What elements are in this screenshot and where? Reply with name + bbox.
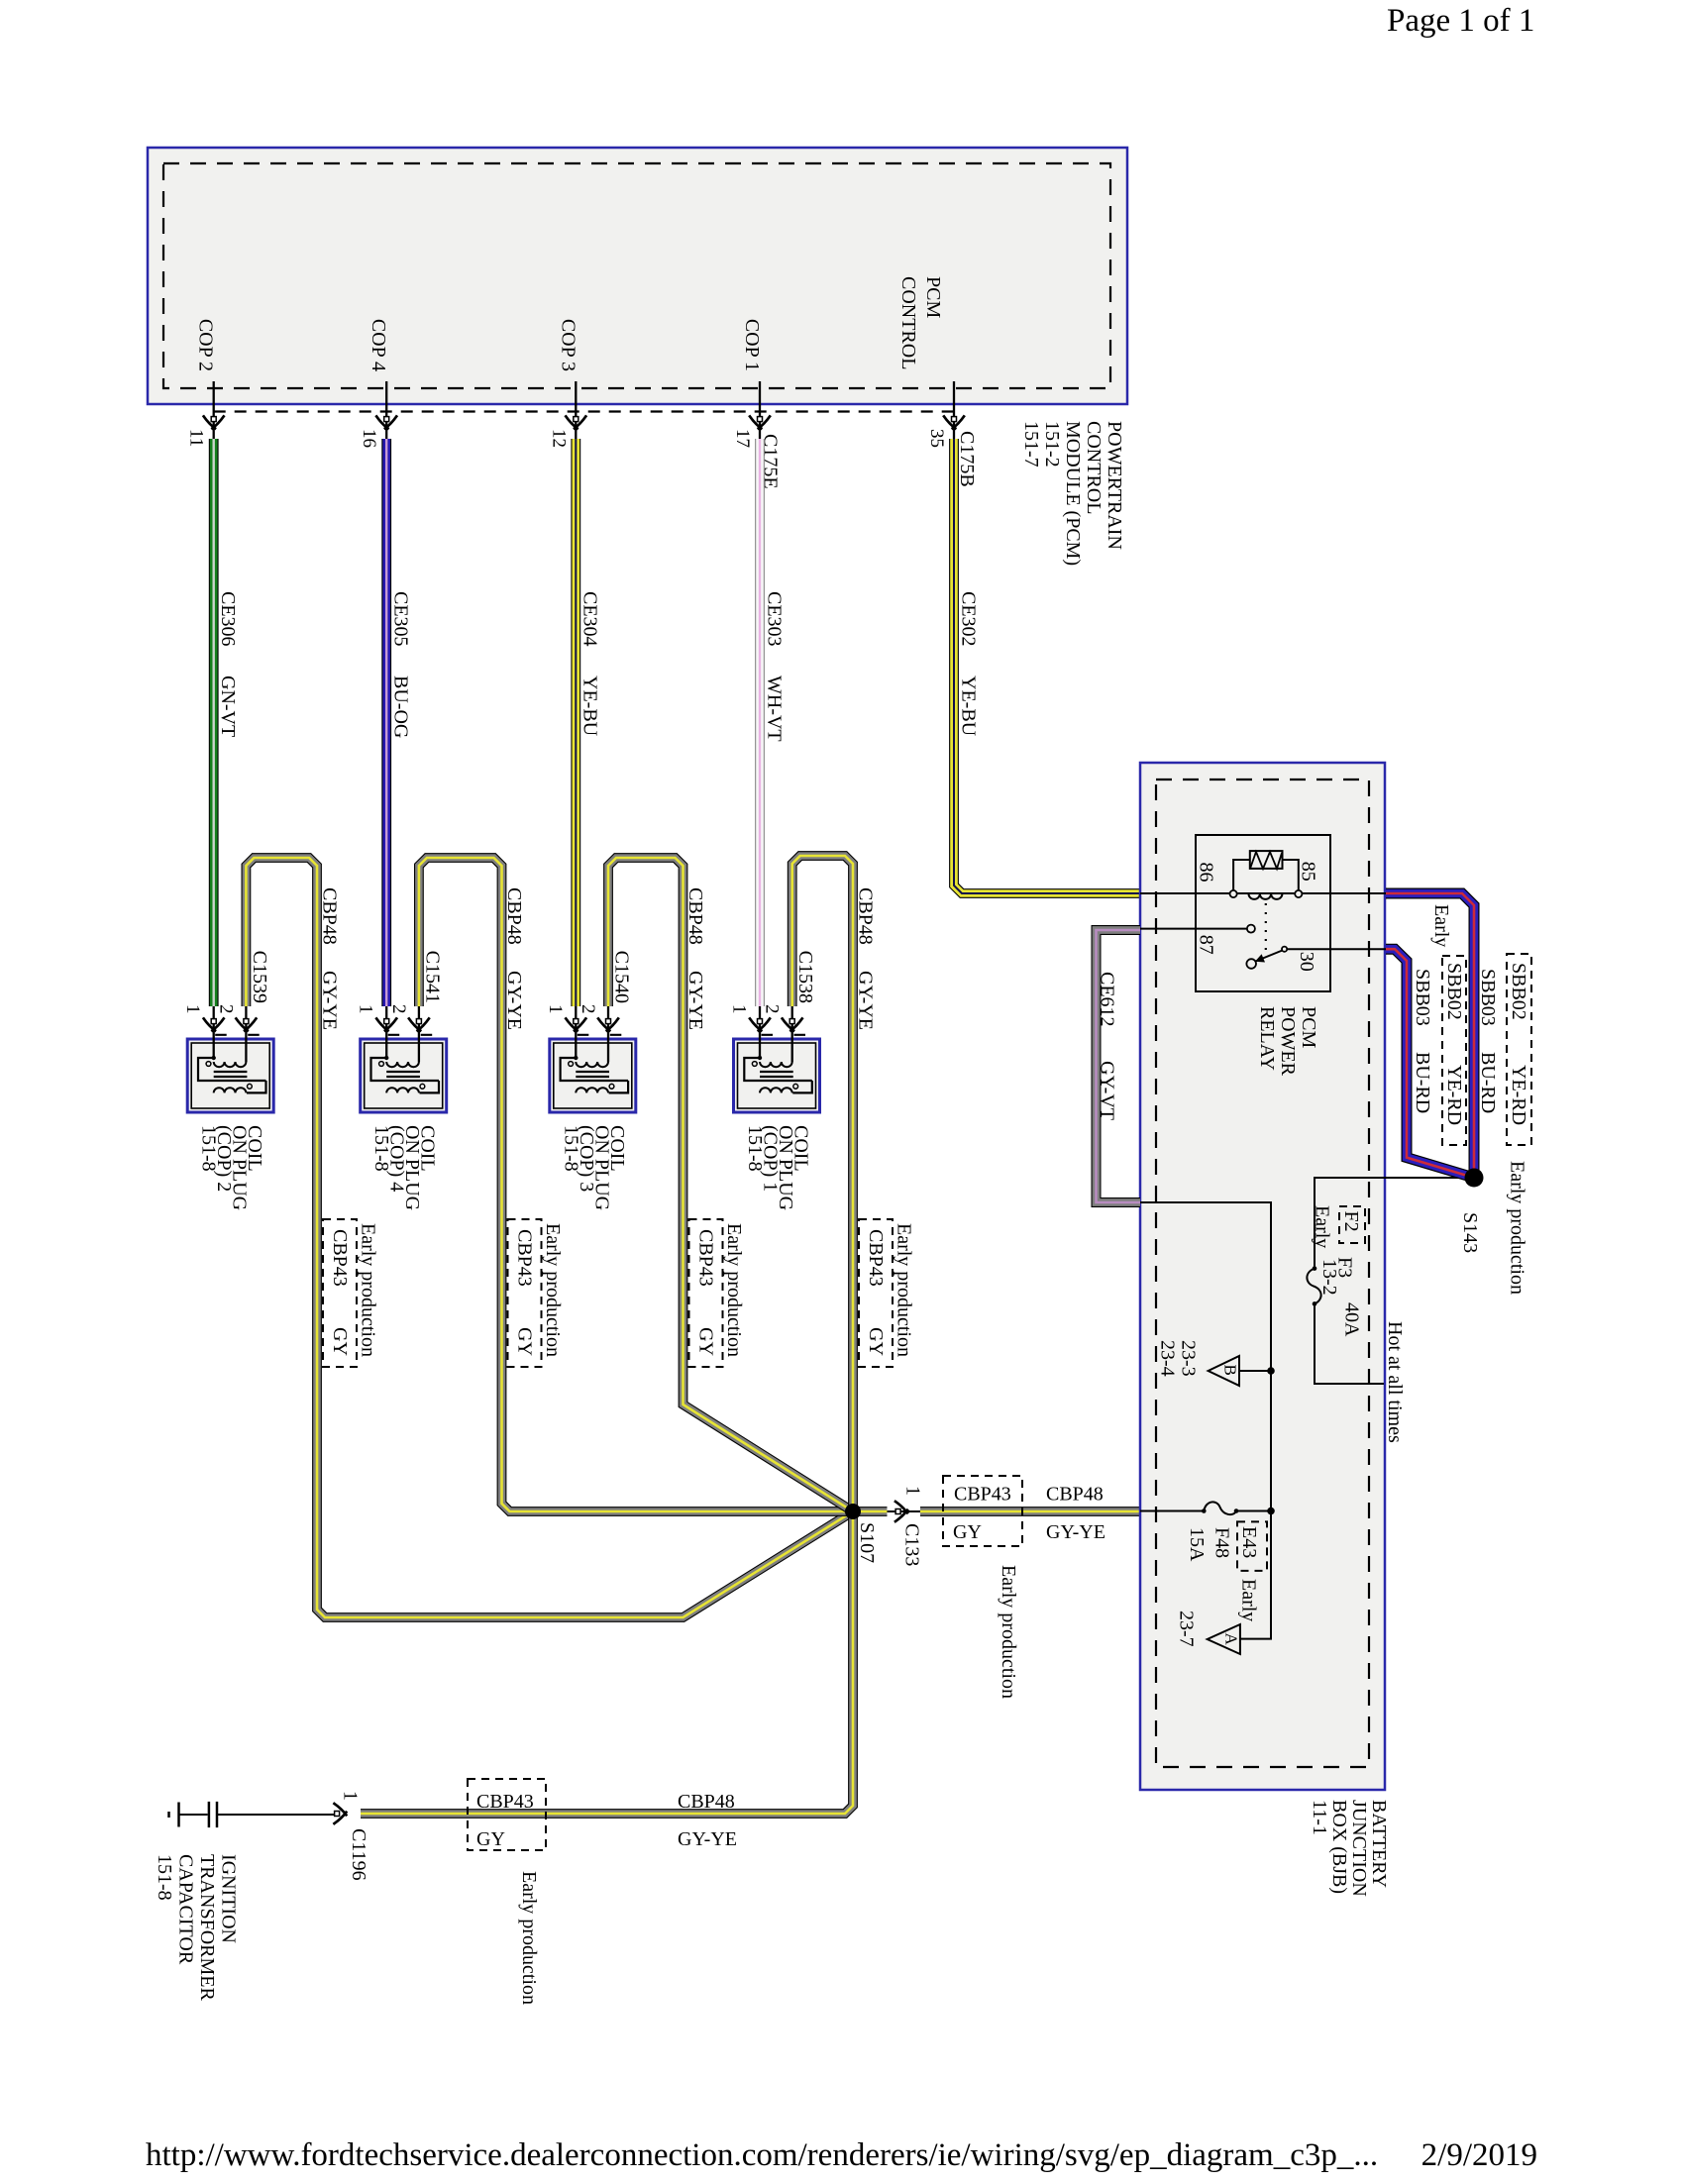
svg-text:87: 87 xyxy=(1196,935,1217,955)
svg-text:CBP43: CBP43 xyxy=(476,1791,534,1813)
svg-text:F2: F2 xyxy=(1340,1211,1362,1232)
svg-text:B: B xyxy=(1221,1365,1240,1376)
svg-text:GY: GY xyxy=(953,1521,982,1543)
svg-text:40A: 40A xyxy=(1341,1302,1363,1337)
svg-text:CBP48: CBP48 xyxy=(503,887,525,945)
svg-text:GY-VT: GY-VT xyxy=(1097,1061,1118,1120)
svg-text:23-4: 23-4 xyxy=(1157,1340,1179,1377)
svg-text:GY: GY xyxy=(695,1327,717,1356)
svg-text:YE-RD: YE-RD xyxy=(1443,1065,1465,1125)
svg-text:GY-YE: GY-YE xyxy=(855,971,877,1030)
svg-text:35: 35 xyxy=(926,429,947,448)
svg-text:BU-RD: BU-RD xyxy=(1412,1052,1433,1113)
svg-text:E43: E43 xyxy=(1238,1526,1260,1558)
svg-text:GY: GY xyxy=(329,1327,351,1356)
svg-text:Early production: Early production xyxy=(358,1223,379,1357)
svg-text:A: A xyxy=(1222,1633,1241,1646)
svg-text:85: 85 xyxy=(1298,862,1319,882)
svg-text:GY-YE: GY-YE xyxy=(1046,1521,1105,1543)
svg-text:Page 1 of 1: Page 1 of 1 xyxy=(1387,3,1534,39)
svg-text:CE302: CE302 xyxy=(957,591,979,647)
svg-text:CE303: CE303 xyxy=(763,591,785,647)
svg-text:CBP48: CBP48 xyxy=(1046,1484,1104,1506)
svg-text:C133: C133 xyxy=(901,1523,923,1566)
svg-text:17: 17 xyxy=(732,429,753,448)
svg-text:CBP43: CBP43 xyxy=(329,1229,351,1287)
svg-text:COP 2: COP 2 xyxy=(195,319,217,371)
svg-text:COP 1: COP 1 xyxy=(741,319,763,371)
svg-text:GY: GY xyxy=(476,1828,505,1850)
svg-text:C1538: C1538 xyxy=(794,951,816,1003)
svg-text:GY: GY xyxy=(865,1327,887,1356)
svg-text:15A: 15A xyxy=(1186,1527,1208,1562)
svg-text:11: 11 xyxy=(186,429,207,447)
svg-text:2/9/2019: 2/9/2019 xyxy=(1421,2137,1537,2173)
svg-text:C1540: C1540 xyxy=(611,951,633,1003)
svg-text:1: 1 xyxy=(356,1004,376,1014)
svg-text:Hot at all times: Hot at all times xyxy=(1384,1321,1406,1443)
svg-text:12: 12 xyxy=(548,429,569,448)
svg-text:SBB03: SBB03 xyxy=(1477,969,1499,1026)
svg-text:CBP43: CBP43 xyxy=(865,1229,887,1287)
svg-text:GY-YE: GY-YE xyxy=(319,971,341,1030)
svg-text:CBP43: CBP43 xyxy=(954,1484,1011,1506)
svg-text:Early: Early xyxy=(1312,1205,1333,1248)
svg-text:1: 1 xyxy=(902,1486,924,1496)
svg-text:2: 2 xyxy=(215,1004,236,1014)
svg-text:Early production: Early production xyxy=(894,1223,915,1357)
svg-text:Early production: Early production xyxy=(1507,1161,1528,1295)
svg-text:F3: F3 xyxy=(1334,1257,1356,1278)
svg-text:YE-BU: YE-BU xyxy=(957,676,979,737)
svg-text:1: 1 xyxy=(340,1791,362,1801)
svg-text:BU-OG: BU-OG xyxy=(390,676,412,738)
svg-text:CE305: CE305 xyxy=(390,591,412,647)
svg-text:COP 4: COP 4 xyxy=(368,319,389,371)
svg-text:86: 86 xyxy=(1196,863,1217,883)
svg-text:SBB02: SBB02 xyxy=(1508,963,1529,1020)
svg-text:COP 3: COP 3 xyxy=(557,319,579,371)
svg-text:16: 16 xyxy=(359,429,379,448)
svg-text:2: 2 xyxy=(388,1004,409,1014)
svg-text:S107: S107 xyxy=(856,1522,878,1563)
svg-text:GY-YE: GY-YE xyxy=(678,1828,737,1850)
svg-text:YE-RD: YE-RD xyxy=(1508,1065,1529,1125)
svg-text:2: 2 xyxy=(762,1004,783,1014)
svg-text:Early: Early xyxy=(1238,1579,1260,1621)
svg-text:YE-BU: YE-BU xyxy=(579,676,601,737)
svg-text:http://www.fordtechservice.dea: http://www.fordtechservice.dealerconnect… xyxy=(146,2137,1378,2173)
svg-text:1: 1 xyxy=(729,1004,750,1014)
svg-text:CBP48: CBP48 xyxy=(855,887,877,945)
svg-text:C1539: C1539 xyxy=(249,951,270,1003)
svg-text:GY-YE: GY-YE xyxy=(684,971,706,1030)
svg-text:C1196: C1196 xyxy=(348,1828,369,1881)
svg-text:F48: F48 xyxy=(1211,1527,1233,1558)
svg-text:CBP48: CBP48 xyxy=(684,887,706,945)
svg-text:23-7: 23-7 xyxy=(1176,1611,1198,1647)
svg-text:BU-RD: BU-RD xyxy=(1477,1052,1499,1113)
svg-text:GY: GY xyxy=(514,1327,536,1356)
svg-text:Early production: Early production xyxy=(518,1871,540,2005)
svg-text:CBP43: CBP43 xyxy=(695,1229,717,1287)
svg-text:30: 30 xyxy=(1296,952,1317,972)
svg-text:SBB02: SBB02 xyxy=(1443,963,1465,1020)
svg-text:2: 2 xyxy=(578,1004,598,1014)
svg-text:GN-VT: GN-VT xyxy=(217,676,239,737)
svg-text:Early production: Early production xyxy=(542,1223,564,1357)
svg-text:CE306: CE306 xyxy=(217,591,239,647)
svg-text:C175B: C175B xyxy=(956,431,978,487)
svg-text:23-3: 23-3 xyxy=(1178,1340,1200,1377)
svg-text:WH-VT: WH-VT xyxy=(763,676,785,742)
svg-text:SBB03: SBB03 xyxy=(1412,969,1433,1026)
svg-text:CBP48: CBP48 xyxy=(678,1791,735,1813)
svg-text:CBP43: CBP43 xyxy=(514,1229,536,1287)
svg-text:CE304: CE304 xyxy=(579,591,601,647)
svg-text:S143: S143 xyxy=(1459,1212,1481,1253)
svg-text:CE612: CE612 xyxy=(1097,972,1118,1027)
svg-text:1: 1 xyxy=(182,1004,203,1014)
svg-text:Early: Early xyxy=(1430,904,1452,947)
svg-text:1: 1 xyxy=(545,1004,566,1014)
svg-text:Early production: Early production xyxy=(723,1223,745,1357)
svg-text:CBP48: CBP48 xyxy=(319,887,341,945)
svg-text:Early production: Early production xyxy=(998,1565,1019,1699)
svg-text:C1541: C1541 xyxy=(421,951,443,1003)
svg-text:GY-YE: GY-YE xyxy=(503,971,525,1030)
